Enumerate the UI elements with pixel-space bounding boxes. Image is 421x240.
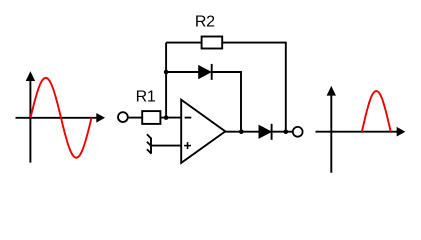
- op-amp U1: [181, 100, 225, 163]
- resistor R1: [142, 111, 160, 124]
- output waveform horizontal axis: [316, 127, 406, 137]
- node diode feedback junction: [164, 70, 169, 75]
- ground: [147, 134, 151, 154]
- output half-wave pulse: [362, 91, 391, 132]
- wire diode feedback row left: [166, 71, 199, 73]
- wire R2 loop right segment: [222, 43, 286, 132]
- wire diode feedback row right: [211, 72, 241, 132]
- input waveform vertical axis: [26, 71, 35, 162]
- node op-amp output junction: [239, 129, 244, 134]
- node output junction: [284, 129, 289, 134]
- input terminal: [118, 112, 128, 122]
- wire R1 to op-amp inverting input: [160, 117, 181, 119]
- wire input terminal to R1: [128, 117, 143, 119]
- input sine wave: [31, 78, 92, 158]
- op-amp plus sign: [184, 142, 191, 149]
- node inverting input junction: [164, 115, 169, 120]
- svg-text:R2: R2: [195, 14, 215, 31]
- wire vertical feedback riser: [165, 43, 167, 118]
- output terminal: [293, 127, 303, 137]
- resistor R2: [202, 37, 223, 49]
- diode D1: [199, 64, 212, 80]
- wire op-amp output: [225, 131, 293, 133]
- diode D2: [259, 124, 272, 140]
- output waveform vertical axis: [327, 86, 336, 173]
- wire R2 loop left segment: [166, 42, 202, 44]
- op-amp minus sign: [185, 117, 192, 119]
- wire non-inverting input: [151, 145, 182, 147]
- input waveform horizontal axis: [16, 113, 106, 123]
- svg-text:R1: R1: [136, 88, 156, 105]
